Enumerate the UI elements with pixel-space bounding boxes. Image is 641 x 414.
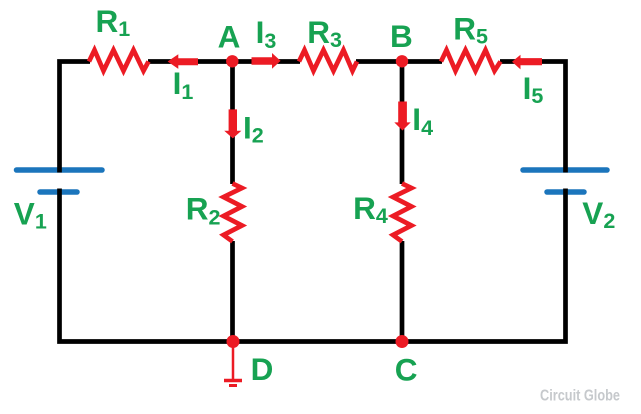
svg-text:Circuit Globe: Circuit Globe <box>540 388 620 405</box>
svg-text:I4: I4 <box>412 101 433 140</box>
svg-text:R5: R5 <box>453 11 488 49</box>
svg-text:V2: V2 <box>582 195 615 233</box>
svg-text:I5: I5 <box>523 70 544 108</box>
svg-text:C: C <box>395 352 418 388</box>
svg-text:V1: V1 <box>14 195 47 233</box>
svg-text:R4: R4 <box>353 190 388 228</box>
svg-text:I2: I2 <box>243 109 264 147</box>
svg-text:R1: R1 <box>96 3 131 41</box>
svg-text:R3: R3 <box>307 14 342 52</box>
svg-text:A: A <box>218 19 241 55</box>
svg-text:R2: R2 <box>186 190 221 229</box>
svg-text:D: D <box>251 351 274 387</box>
svg-text:B: B <box>390 18 413 54</box>
svg-text:I3: I3 <box>256 14 277 53</box>
svg-text:I1: I1 <box>173 65 194 104</box>
